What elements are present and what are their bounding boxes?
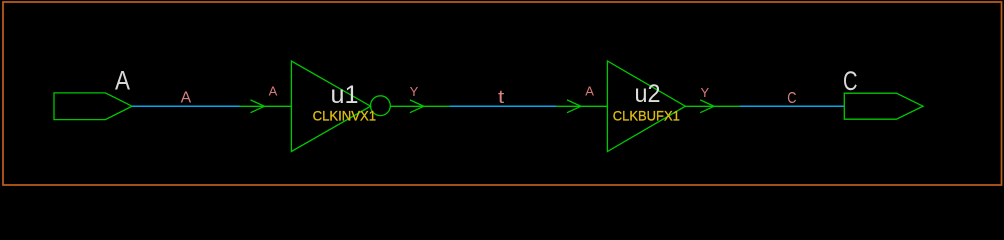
arrowhead u2 output [700,100,714,113]
svg-text:u1: u1 [331,81,359,109]
svg-text:C: C [843,66,858,96]
arrowhead u1 input [251,100,265,113]
arrowhead u2 input [567,100,581,113]
svg-text:C: C [787,90,796,107]
wire stub u2 input [557,105,608,107]
wire net A [132,105,240,107]
wire stub u1 input [240,105,292,107]
buffer u2 triangle [607,61,685,152]
svg-text:CLKINVX1: CLKINVX1 [313,108,377,124]
svg-text:A: A [585,84,594,99]
arrowhead u1 output [410,100,424,113]
svg-text:A: A [115,65,130,95]
svg-text:CLKBUFX1: CLKBUFX1 [613,108,680,124]
output port C [844,93,923,119]
svg-text:u2: u2 [635,80,661,108]
inverter u1 bubble [371,96,391,116]
wire stub u1 output [390,105,449,107]
wire stub u2 output [685,105,739,107]
input port A [54,93,132,120]
svg-text:Y: Y [410,84,419,99]
svg-text:A: A [269,84,278,99]
wire net t [449,105,556,107]
wire net C [740,105,845,107]
svg-text:A: A [181,90,192,107]
svg-text:t: t [498,87,504,107]
svg-text:Y: Y [701,85,710,100]
inverter u1 triangle [291,61,370,152]
